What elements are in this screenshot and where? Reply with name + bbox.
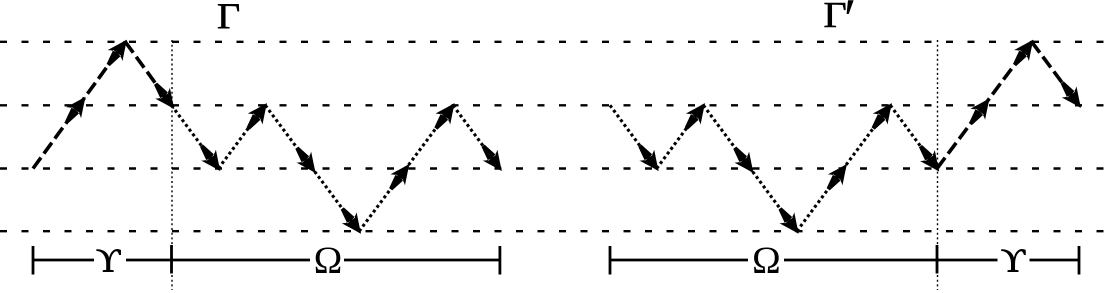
path Gamma: dotted step up (218, 105, 265, 168)
label Gamma prime: prime mark (847, 0, 854, 14)
vertical dotted separator (right) (937, 40, 939, 290)
path Gamma prime: dotted step up (657, 105, 704, 168)
path Gamma prime: dotted step down (610, 105, 657, 168)
arrowhead at end of Gamma dashed descent (148, 78, 181, 114)
arrowhead at second peak (428, 98, 461, 134)
arrowhead at second peak (right) (866, 98, 899, 134)
arrowhead mid double descent (right) (727, 142, 760, 178)
path Gamma: dotted step down (172, 105, 219, 168)
arrowhead at valley bottom (right) (773, 203, 806, 239)
label Omega (left bracket) (316, 248, 341, 273)
level line 1 (top) (0, 41, 1111, 43)
arrowhead on right ascent at level-2 crossing (963, 93, 996, 129)
label Gamma (218, 4, 239, 28)
right bracket line segment 3 (1030, 259, 1080, 262)
left bracket end tick left (32, 246, 35, 275)
right bracket end tick right (1078, 246, 1081, 275)
path Gamma prime: dotted double descent (703, 105, 797, 231)
arrowhead at end of Gamma (476, 140, 509, 176)
right bracket line segment 2 (784, 259, 998, 262)
arrowhead dotted down step end (right) (632, 140, 665, 176)
path Gamma: dotted double descent (265, 105, 359, 231)
path Gamma prime: dashed ascent (Upsilon part) (937, 42, 1032, 169)
arrowhead at end of Gamma prime (1055, 77, 1088, 113)
label Upsilon (left bracket) (97, 249, 121, 271)
left bracket line segment 2 (126, 259, 310, 262)
path Gamma prime: dotted descent to junction (890, 105, 937, 168)
right bracket end tick left (609, 246, 612, 275)
level line 3 (0, 167, 1111, 169)
right bracket middle tick (936, 245, 939, 274)
left bracket end tick right (498, 246, 501, 275)
path Gamma prime: dotted double ascent (797, 105, 890, 231)
arrowhead dotted down step end (194, 140, 227, 176)
path Gamma: dashed descent (Upsilon part) (125, 42, 171, 106)
path Gamma prime: dashed final descent (1032, 42, 1079, 106)
arrowhead dotted up step end (small peak) (241, 98, 274, 134)
level line 2 (0, 104, 1111, 106)
level line 4 (bottom) (0, 230, 1111, 232)
arrowhead on Gamma ascent at level-2 crossing (59, 92, 92, 128)
left bracket middle tick (170, 245, 173, 274)
arrowhead at valley bottom (335, 203, 368, 239)
label Omega (right bracket) (754, 248, 779, 273)
arrowhead mid double descent (289, 142, 322, 178)
path Gamma: dashed ascent (Upsilon part) (33, 42, 125, 169)
right bracket line segment 1 (610, 259, 748, 262)
arrowhead at Omega/Upsilon junction (right) (913, 141, 946, 177)
arrowhead on right ascent at peak (1007, 34, 1040, 70)
path Gamma: final dotted descent (453, 105, 500, 168)
label Upsilon (right bracket) (1002, 249, 1026, 271)
arrowhead dotted up step end (right small peak) (679, 98, 712, 134)
arrowhead mid double ascent (383, 159, 416, 195)
arrowhead mid double ascent (right) (821, 159, 854, 195)
vertical dotted separator (left) (171, 40, 173, 290)
left bracket line segment 1 (33, 259, 94, 262)
path Gamma: dotted double ascent (359, 105, 453, 231)
left bracket line segment 3 (344, 259, 500, 262)
label Gamma prime: Gamma (825, 3, 846, 27)
arrowhead on Gamma ascent at peak (101, 34, 134, 70)
